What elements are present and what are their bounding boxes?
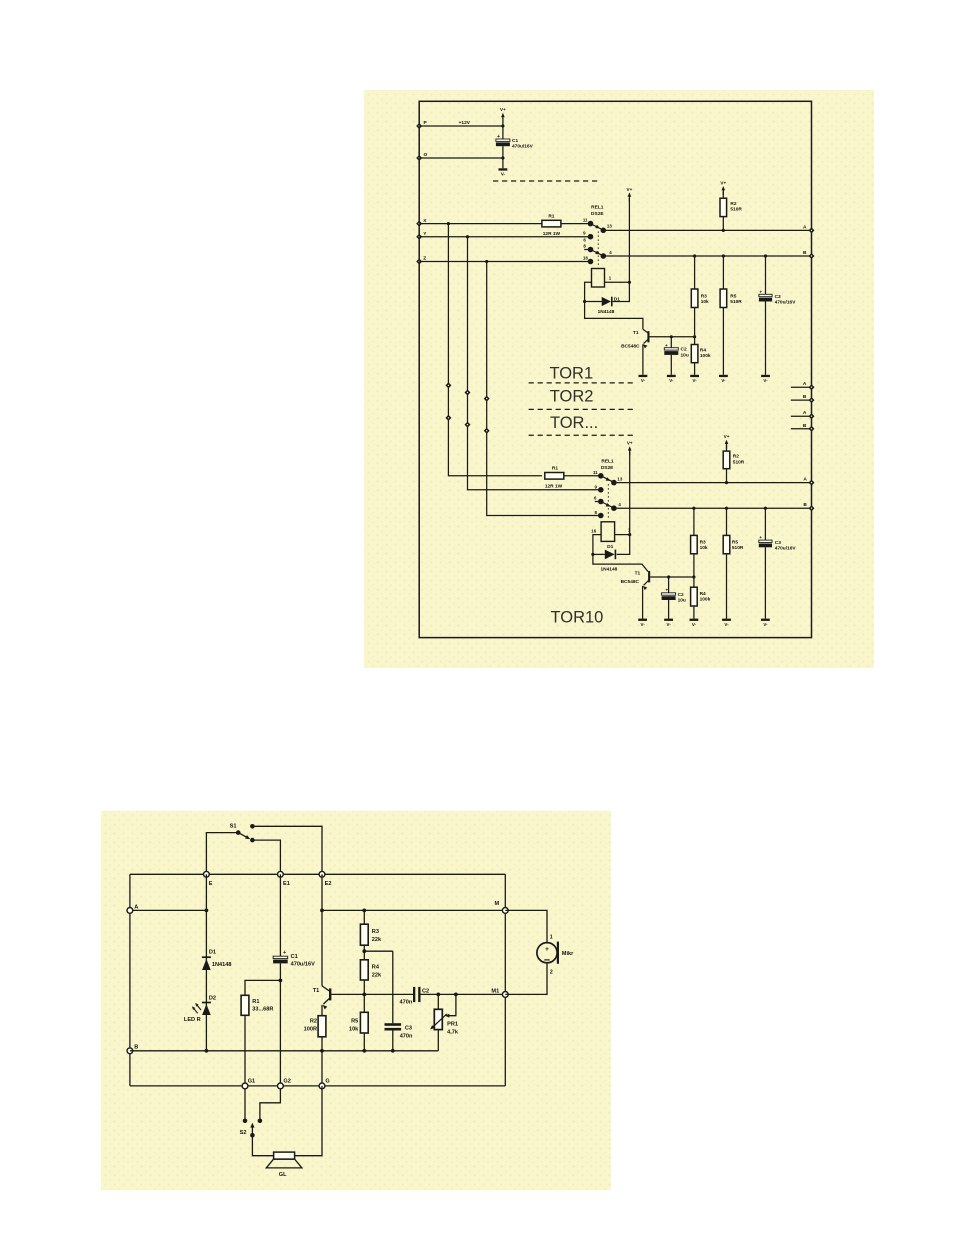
svg-text:4,7k: 4,7k xyxy=(447,1029,459,1035)
wire C3 to ground xyxy=(765,302,767,375)
wire R5 to ground xyxy=(722,308,724,375)
terminal Z xyxy=(416,259,422,265)
wire P to C1 top xyxy=(419,125,503,127)
resistor R2 510R (TOR10) xyxy=(726,445,728,451)
transistor T1 BC548C xyxy=(643,329,648,333)
wire T1 emitter to R2 xyxy=(321,1005,323,1016)
svg-text:Z: Z xyxy=(423,256,426,262)
svg-text:M: M xyxy=(495,901,500,907)
svg-text:R1: R1 xyxy=(252,999,259,1005)
terminal B (TOR10) xyxy=(809,505,815,511)
ground V- under R4 xyxy=(690,375,699,377)
svg-text:R3: R3 xyxy=(372,929,379,935)
wire contact 13 to terminal A (TOR10) xyxy=(614,482,812,484)
svg-text:13: 13 xyxy=(617,476,622,481)
svg-text:DS2E: DS2E xyxy=(591,211,604,217)
wire C2 to ground (TOR10) xyxy=(668,600,670,619)
tap terminal on Z dropper (TOR2) xyxy=(484,396,490,402)
svg-text:+12V: +12V xyxy=(459,120,471,126)
diode D2 LED R xyxy=(202,1002,211,1004)
svg-text:C3: C3 xyxy=(405,1025,412,1031)
transistor T1 xyxy=(322,986,329,991)
svg-text:6: 6 xyxy=(594,496,597,501)
svg-text:R2: R2 xyxy=(733,454,739,460)
svg-text:TOR...: TOR... xyxy=(550,414,598,432)
svg-text:C3: C3 xyxy=(775,540,781,546)
svg-text:510R: 510R xyxy=(732,545,744,551)
microphone Mikr xyxy=(537,943,557,963)
wire T1 base line xyxy=(331,993,413,995)
svg-text:9: 9 xyxy=(594,484,597,489)
svg-text:V-: V- xyxy=(669,378,674,383)
wire R2 to A line xyxy=(722,217,724,231)
svg-text:16: 16 xyxy=(591,529,596,534)
ground V- under R4 (TOR10) xyxy=(690,619,699,621)
wire R3-R4 junction xyxy=(363,945,365,960)
svg-text:S1: S1 xyxy=(230,824,237,830)
terminal A (TOR10) xyxy=(809,480,815,486)
dashed separator TOR1 xyxy=(529,382,634,384)
node M xyxy=(502,908,508,914)
wire R5 to ground (TOR10) xyxy=(726,554,728,619)
svg-text:GL: GL xyxy=(279,1172,287,1178)
svg-text:V-: V- xyxy=(667,622,672,627)
capacitor C3 470n feedback xyxy=(392,951,394,1023)
wire D1 anode (TOR10) xyxy=(593,553,605,555)
dashed separator TOR2 xyxy=(529,408,634,410)
wire G2 down to S2 xyxy=(260,1086,281,1119)
svg-text:D1: D1 xyxy=(607,544,613,550)
svg-text:100k: 100k xyxy=(700,596,711,602)
cable loom bottom line G1-G2-G xyxy=(130,1085,505,1087)
ground V- under T1 (TOR10) xyxy=(638,619,647,621)
terminal B xyxy=(809,253,815,259)
tap terminal on Z dropper (TOR...) xyxy=(484,428,490,434)
wire V+ node down to D1 cathode xyxy=(613,282,630,301)
svg-text:+: + xyxy=(545,946,549,953)
svg-text:2: 2 xyxy=(550,969,553,975)
wire M line xyxy=(322,909,505,911)
svg-text:V-: V- xyxy=(763,378,768,383)
resistor R5 510R (TOR10) xyxy=(726,508,728,535)
bus Y dropper xyxy=(468,237,600,490)
terminal X xyxy=(416,221,422,227)
switch S2 arm xyxy=(250,1133,255,1138)
wire G to speaker xyxy=(295,1086,322,1156)
wire contact 4 to terminal B xyxy=(603,255,811,257)
cable loom top line E-E1-E2 xyxy=(130,873,505,875)
bus X dropper xyxy=(448,224,542,476)
ground V- under C2 xyxy=(667,375,676,377)
ground V- under C2 (TOR10) xyxy=(664,619,673,621)
wire R2 to A line (TOR10) xyxy=(726,469,728,483)
svg-text:C2: C2 xyxy=(678,592,684,598)
relay mechanical link (dotted, TOR10) xyxy=(607,484,609,519)
node G xyxy=(319,1083,325,1089)
relay contact arm 6-4 (TOR10) xyxy=(601,502,614,509)
svg-text:12R 1W: 12R 1W xyxy=(543,231,561,237)
wire R1 down to G1 and S2 xyxy=(244,1015,246,1118)
svg-text:E: E xyxy=(209,881,213,887)
ground V- under T1 xyxy=(639,375,648,377)
svg-text:V+: V+ xyxy=(627,187,633,192)
wire A to E line xyxy=(130,909,207,911)
wire R1 top to C1 line xyxy=(245,980,280,995)
ground V- under C3 (TOR10) xyxy=(761,619,770,621)
svg-text:LED R: LED R xyxy=(184,1017,201,1023)
svg-text:1N4148: 1N4148 xyxy=(598,309,615,315)
svg-text:G: G xyxy=(325,1079,329,1085)
wire B rail xyxy=(130,1050,438,1052)
svg-text:TOR2: TOR2 xyxy=(550,388,594,406)
capacitor C2 10u xyxy=(670,337,672,348)
svg-text:M1: M1 xyxy=(491,989,499,995)
resistor R5 10k xyxy=(363,994,365,1012)
svg-text:470u/16V: 470u/16V xyxy=(512,144,534,150)
svg-text:C2: C2 xyxy=(422,988,429,994)
wire T1 emitter to ground xyxy=(642,344,644,375)
svg-text:R1: R1 xyxy=(548,213,554,219)
node B xyxy=(127,1048,133,1054)
wire S2 to speaker xyxy=(252,1135,273,1156)
svg-text:10k: 10k xyxy=(701,299,709,305)
svg-text:12R 1W: 12R 1W xyxy=(545,483,563,489)
svg-text:E1: E1 xyxy=(283,881,290,887)
svg-text:B: B xyxy=(803,423,807,429)
node G2 xyxy=(278,1083,284,1089)
relay pin 13 xyxy=(601,228,607,234)
svg-text:A: A xyxy=(803,224,807,230)
svg-text:470u/16V: 470u/16V xyxy=(775,300,797,306)
capacitor C1 470u/16V xyxy=(502,126,504,139)
relay contact arm 11-13 (TOR10) xyxy=(601,476,614,483)
vertical wire E2 to T1 collector xyxy=(321,874,323,986)
relay pin 16 xyxy=(588,259,594,265)
resistor R2 100R xyxy=(318,1016,326,1037)
wire T1 base (TOR10) xyxy=(650,576,694,578)
wire Z to relay pin 16 xyxy=(419,261,589,263)
svg-text:1N4148: 1N4148 xyxy=(600,566,617,572)
wire coil left to T1 collector xyxy=(585,282,643,329)
svg-text:A: A xyxy=(803,410,807,416)
dashed separator TOR... xyxy=(529,434,634,436)
svg-text:V+: V+ xyxy=(500,107,506,112)
svg-text:BC548C: BC548C xyxy=(621,579,640,585)
svg-text:T1: T1 xyxy=(633,330,639,336)
wire coil pin1 to V+ xyxy=(605,281,630,283)
svg-text:13: 13 xyxy=(607,224,612,229)
tap terminal on Y dropper (TOR2) xyxy=(465,390,471,396)
wire O to C1 bottom xyxy=(419,157,503,159)
terminal Y xyxy=(416,234,422,240)
relay mechanical link (dotted) xyxy=(597,232,599,268)
svg-text:+: + xyxy=(665,588,668,593)
bus Z dropper xyxy=(487,262,599,516)
svg-text:R2: R2 xyxy=(730,201,736,207)
resistor R4 100k (TOR10) xyxy=(691,587,698,606)
svg-text:22k: 22k xyxy=(372,937,382,943)
svg-text:V+: V+ xyxy=(724,434,730,439)
terminal P xyxy=(416,123,422,129)
svg-text:T1: T1 xyxy=(635,571,641,577)
svg-text:+: + xyxy=(665,343,668,348)
wire R5 to B rail xyxy=(363,1033,365,1051)
svg-text:R4: R4 xyxy=(700,591,706,597)
relay pin 4 (TOR10) xyxy=(611,505,617,511)
svg-text:4: 4 xyxy=(609,250,612,255)
svg-text:33...68R: 33...68R xyxy=(252,1007,273,1013)
switch S2 contact right xyxy=(258,1119,263,1124)
relay contact arm 11-13 xyxy=(591,224,604,231)
node E xyxy=(204,871,210,877)
stub terminal A at y=387.2 xyxy=(791,386,812,388)
svg-text:C1: C1 xyxy=(291,954,298,960)
svg-text:T1: T1 xyxy=(313,988,320,994)
svg-text:A: A xyxy=(803,381,807,387)
relay contact arm 8-4 xyxy=(591,250,604,256)
stub terminal B at y=428.8 xyxy=(791,428,812,430)
wire PR1 to B rail xyxy=(437,1030,439,1051)
resistor R1 12R 1W xyxy=(542,220,561,227)
svg-text:B: B xyxy=(803,394,807,400)
vertical wire E down through D1 D2 to B line xyxy=(205,874,207,1051)
svg-text:R4: R4 xyxy=(372,964,380,970)
svg-text:11: 11 xyxy=(583,218,588,223)
wire X to R1 xyxy=(419,223,542,225)
svg-text:470u/16V: 470u/16V xyxy=(775,546,797,552)
svg-text:D1: D1 xyxy=(209,950,216,956)
svg-text:510R: 510R xyxy=(730,207,742,213)
cable loom right line M-M1 xyxy=(504,874,506,1086)
stub terminal B at y=400.1 xyxy=(791,399,812,401)
svg-text:Y: Y xyxy=(423,231,427,237)
relay pin 6 (TOR10) xyxy=(595,501,599,503)
relay coil (TOR10) xyxy=(601,522,615,542)
wire M to microphone xyxy=(505,910,547,942)
capacitor C2 10u (TOR10) xyxy=(668,577,670,593)
svg-text:Mikr: Mikr xyxy=(562,951,574,957)
wire R2 down to G xyxy=(321,1037,323,1086)
resistor R1 33...68R xyxy=(241,995,249,1015)
wire V+ node down to D1 cathode (TOR10) xyxy=(617,535,630,555)
svg-text:G1: G1 xyxy=(248,1079,255,1085)
tap terminal on Y dropper (TOR...) xyxy=(465,422,471,428)
node A xyxy=(127,908,133,914)
wire C2 to M1 xyxy=(421,993,506,995)
relay pin 9 (TOR10) xyxy=(598,487,604,493)
terminal A xyxy=(809,227,815,233)
tap terminal on X dropper (TOR2) xyxy=(445,382,451,388)
svg-text:510R: 510R xyxy=(730,299,742,305)
svg-text:+: + xyxy=(759,289,762,294)
svg-text:R4: R4 xyxy=(700,347,706,353)
svg-text:510R: 510R xyxy=(733,459,745,465)
wire C3 to ground (TOR10) xyxy=(764,547,766,618)
LED emission arrows xyxy=(196,1004,201,1010)
resistor R4 22k xyxy=(360,960,368,980)
svg-text:V-: V- xyxy=(641,622,646,627)
switch S1 common contact xyxy=(236,830,241,835)
svg-text:+: + xyxy=(497,134,500,140)
wire E up to switch S1 xyxy=(206,833,236,875)
svg-text:BC548C: BC548C xyxy=(621,343,640,349)
svg-text:P: P xyxy=(424,120,428,126)
intercom station schematic panel (bottom) xyxy=(101,811,611,1190)
svg-text:B: B xyxy=(803,502,807,508)
node M1 xyxy=(502,992,508,998)
svg-text:C3: C3 xyxy=(775,294,781,300)
relay pin 13 (TOR10) xyxy=(611,480,617,486)
svg-text:O: O xyxy=(424,152,428,158)
node E2 xyxy=(319,871,325,877)
switch S1 lower contact to E1 xyxy=(250,838,255,843)
resistor R5 510R xyxy=(722,256,724,289)
wire T1 emitter to ground (TOR10) xyxy=(642,586,644,619)
svg-text:V-: V- xyxy=(693,378,698,383)
svg-text:REL1: REL1 xyxy=(601,458,614,464)
resistor R1 12R 1W (TOR10) xyxy=(545,473,564,480)
diode D1 1N4148 xyxy=(202,956,211,958)
svg-text:100k: 100k xyxy=(700,353,711,359)
relay board schematic panel (top) xyxy=(364,90,874,668)
svg-text:D2: D2 xyxy=(209,996,216,1002)
svg-text:X: X xyxy=(423,218,427,224)
relay pin 9 xyxy=(588,234,594,240)
relay pin 8 xyxy=(584,249,588,251)
svg-text:PR1: PR1 xyxy=(447,1021,458,1027)
svg-text:A: A xyxy=(134,904,138,910)
svg-text:10k: 10k xyxy=(700,545,708,551)
svg-text:R5: R5 xyxy=(730,294,736,300)
svg-text:1: 1 xyxy=(550,935,553,941)
svg-text:16: 16 xyxy=(583,256,588,261)
svg-text:B: B xyxy=(134,1045,138,1051)
switch S1 arm xyxy=(238,833,248,839)
wire contact 13 to terminal A xyxy=(603,229,811,231)
transistor T1 BC548C (TOR10) xyxy=(648,571,650,582)
svg-text:11: 11 xyxy=(593,470,598,475)
svg-text:R3: R3 xyxy=(700,540,706,546)
resistor R2 510R xyxy=(722,192,724,199)
svg-text:D1: D1 xyxy=(614,296,620,302)
svg-text:V-: V- xyxy=(721,378,726,383)
svg-text:V-: V- xyxy=(501,172,506,177)
wire contact 4 to terminal B (TOR10) xyxy=(614,507,812,509)
svg-text:V-: V- xyxy=(763,622,768,627)
svg-text:R1: R1 xyxy=(552,466,558,472)
svg-text:R3: R3 xyxy=(701,294,707,300)
wire microphone to M1 xyxy=(505,963,547,995)
wire R1 to relay pin 11 xyxy=(561,223,589,225)
tap terminal on X dropper (TOR...) xyxy=(445,415,451,421)
svg-text:R2: R2 xyxy=(310,1019,317,1025)
svg-text:B: B xyxy=(803,250,807,256)
wire coil left to T1 collector (TOR10) xyxy=(593,535,648,572)
capacitor C1 470u/16V xyxy=(273,956,288,958)
svg-text:10u: 10u xyxy=(678,597,686,603)
wire R3 to base node (TOR10) xyxy=(693,554,695,587)
capacitor C3 470u/16V xyxy=(765,256,767,294)
potentiometer PR1 4,7k xyxy=(437,994,439,1009)
svg-text:+: + xyxy=(759,535,762,540)
svg-text:9: 9 xyxy=(583,231,586,236)
stub terminal A at y=416.2 xyxy=(791,415,812,417)
svg-text:A: A xyxy=(803,477,807,483)
outer border frame of relay board xyxy=(419,101,811,637)
capacitor C3 470u/16V (TOR10) xyxy=(764,508,766,540)
switch S1 upper contact to E2 xyxy=(250,824,255,829)
node G1 xyxy=(242,1083,248,1089)
switch S2 contact left xyxy=(243,1119,248,1124)
diode D1 1N4148 flyback xyxy=(611,297,613,307)
resistor R3 10k xyxy=(694,256,696,289)
svg-text:V+: V+ xyxy=(720,180,726,185)
svg-text:TOR1: TOR1 xyxy=(549,365,593,383)
svg-text:470n: 470n xyxy=(400,1000,413,1006)
diode D1 1N4148 flyback (TOR10) xyxy=(614,550,616,560)
relay pin 11 (TOR10) xyxy=(598,473,604,479)
svg-text:470n: 470n xyxy=(400,1033,413,1039)
ground V- under R5 xyxy=(719,375,728,377)
wire T1 base xyxy=(650,336,695,338)
relay pin 11 xyxy=(588,221,594,227)
wire R3 to base node xyxy=(694,308,696,345)
svg-text:V-: V- xyxy=(724,622,729,627)
svg-text:R5: R5 xyxy=(732,540,738,546)
ground V- under R5 (TOR10) xyxy=(722,619,731,621)
wire R4 to base line xyxy=(363,980,365,994)
resistor R3 10k (TOR10) xyxy=(693,508,695,535)
svg-text:G2: G2 xyxy=(283,1079,290,1085)
wire R4 to ground (TOR10) xyxy=(693,606,695,619)
svg-text:S2: S2 xyxy=(240,1130,247,1136)
terminal O xyxy=(416,155,422,161)
svg-text:6: 6 xyxy=(583,237,586,242)
svg-text:REL1: REL1 xyxy=(591,205,604,211)
relay pin 8 (TOR10) xyxy=(598,513,604,519)
svg-text:C2: C2 xyxy=(681,347,687,353)
svg-text:1N4148: 1N4148 xyxy=(212,962,232,968)
ground V- under C3 xyxy=(761,375,770,377)
svg-text:V-: V- xyxy=(641,378,646,383)
relay pin 4 xyxy=(601,253,607,259)
svg-text:100R: 100R xyxy=(304,1027,317,1033)
svg-text:R5: R5 xyxy=(351,1019,358,1025)
wire C2 to ground xyxy=(670,355,672,375)
dashed separator under power entry xyxy=(493,180,600,182)
svg-text:470u/16V: 470u/16V xyxy=(291,961,316,967)
cable loom left line xyxy=(129,874,131,1086)
svg-text:E2: E2 xyxy=(325,881,332,887)
relay coil xyxy=(592,269,605,288)
svg-text:V-: V- xyxy=(692,622,697,627)
svg-text:1: 1 xyxy=(609,276,612,281)
wire D1 anode xyxy=(585,301,602,303)
svg-text:C1: C1 xyxy=(512,138,518,144)
resistor R4 100k xyxy=(691,345,698,363)
ground V- under C1 xyxy=(502,158,504,168)
speaker GL xyxy=(274,1152,295,1159)
wire R1 to pin 11 (TOR10) xyxy=(564,475,600,477)
svg-text:TOR10: TOR10 xyxy=(550,609,603,627)
svg-text:8: 8 xyxy=(594,510,597,515)
resistor R3 22k xyxy=(363,910,365,924)
wire coil pin1 to V+ (TOR10) xyxy=(615,534,630,536)
wire C3 to B rail xyxy=(392,1031,394,1051)
svg-text:8: 8 xyxy=(583,243,586,248)
svg-text:DS2E: DS2E xyxy=(601,465,614,471)
vertical wire E1/C1 line xyxy=(279,874,281,956)
